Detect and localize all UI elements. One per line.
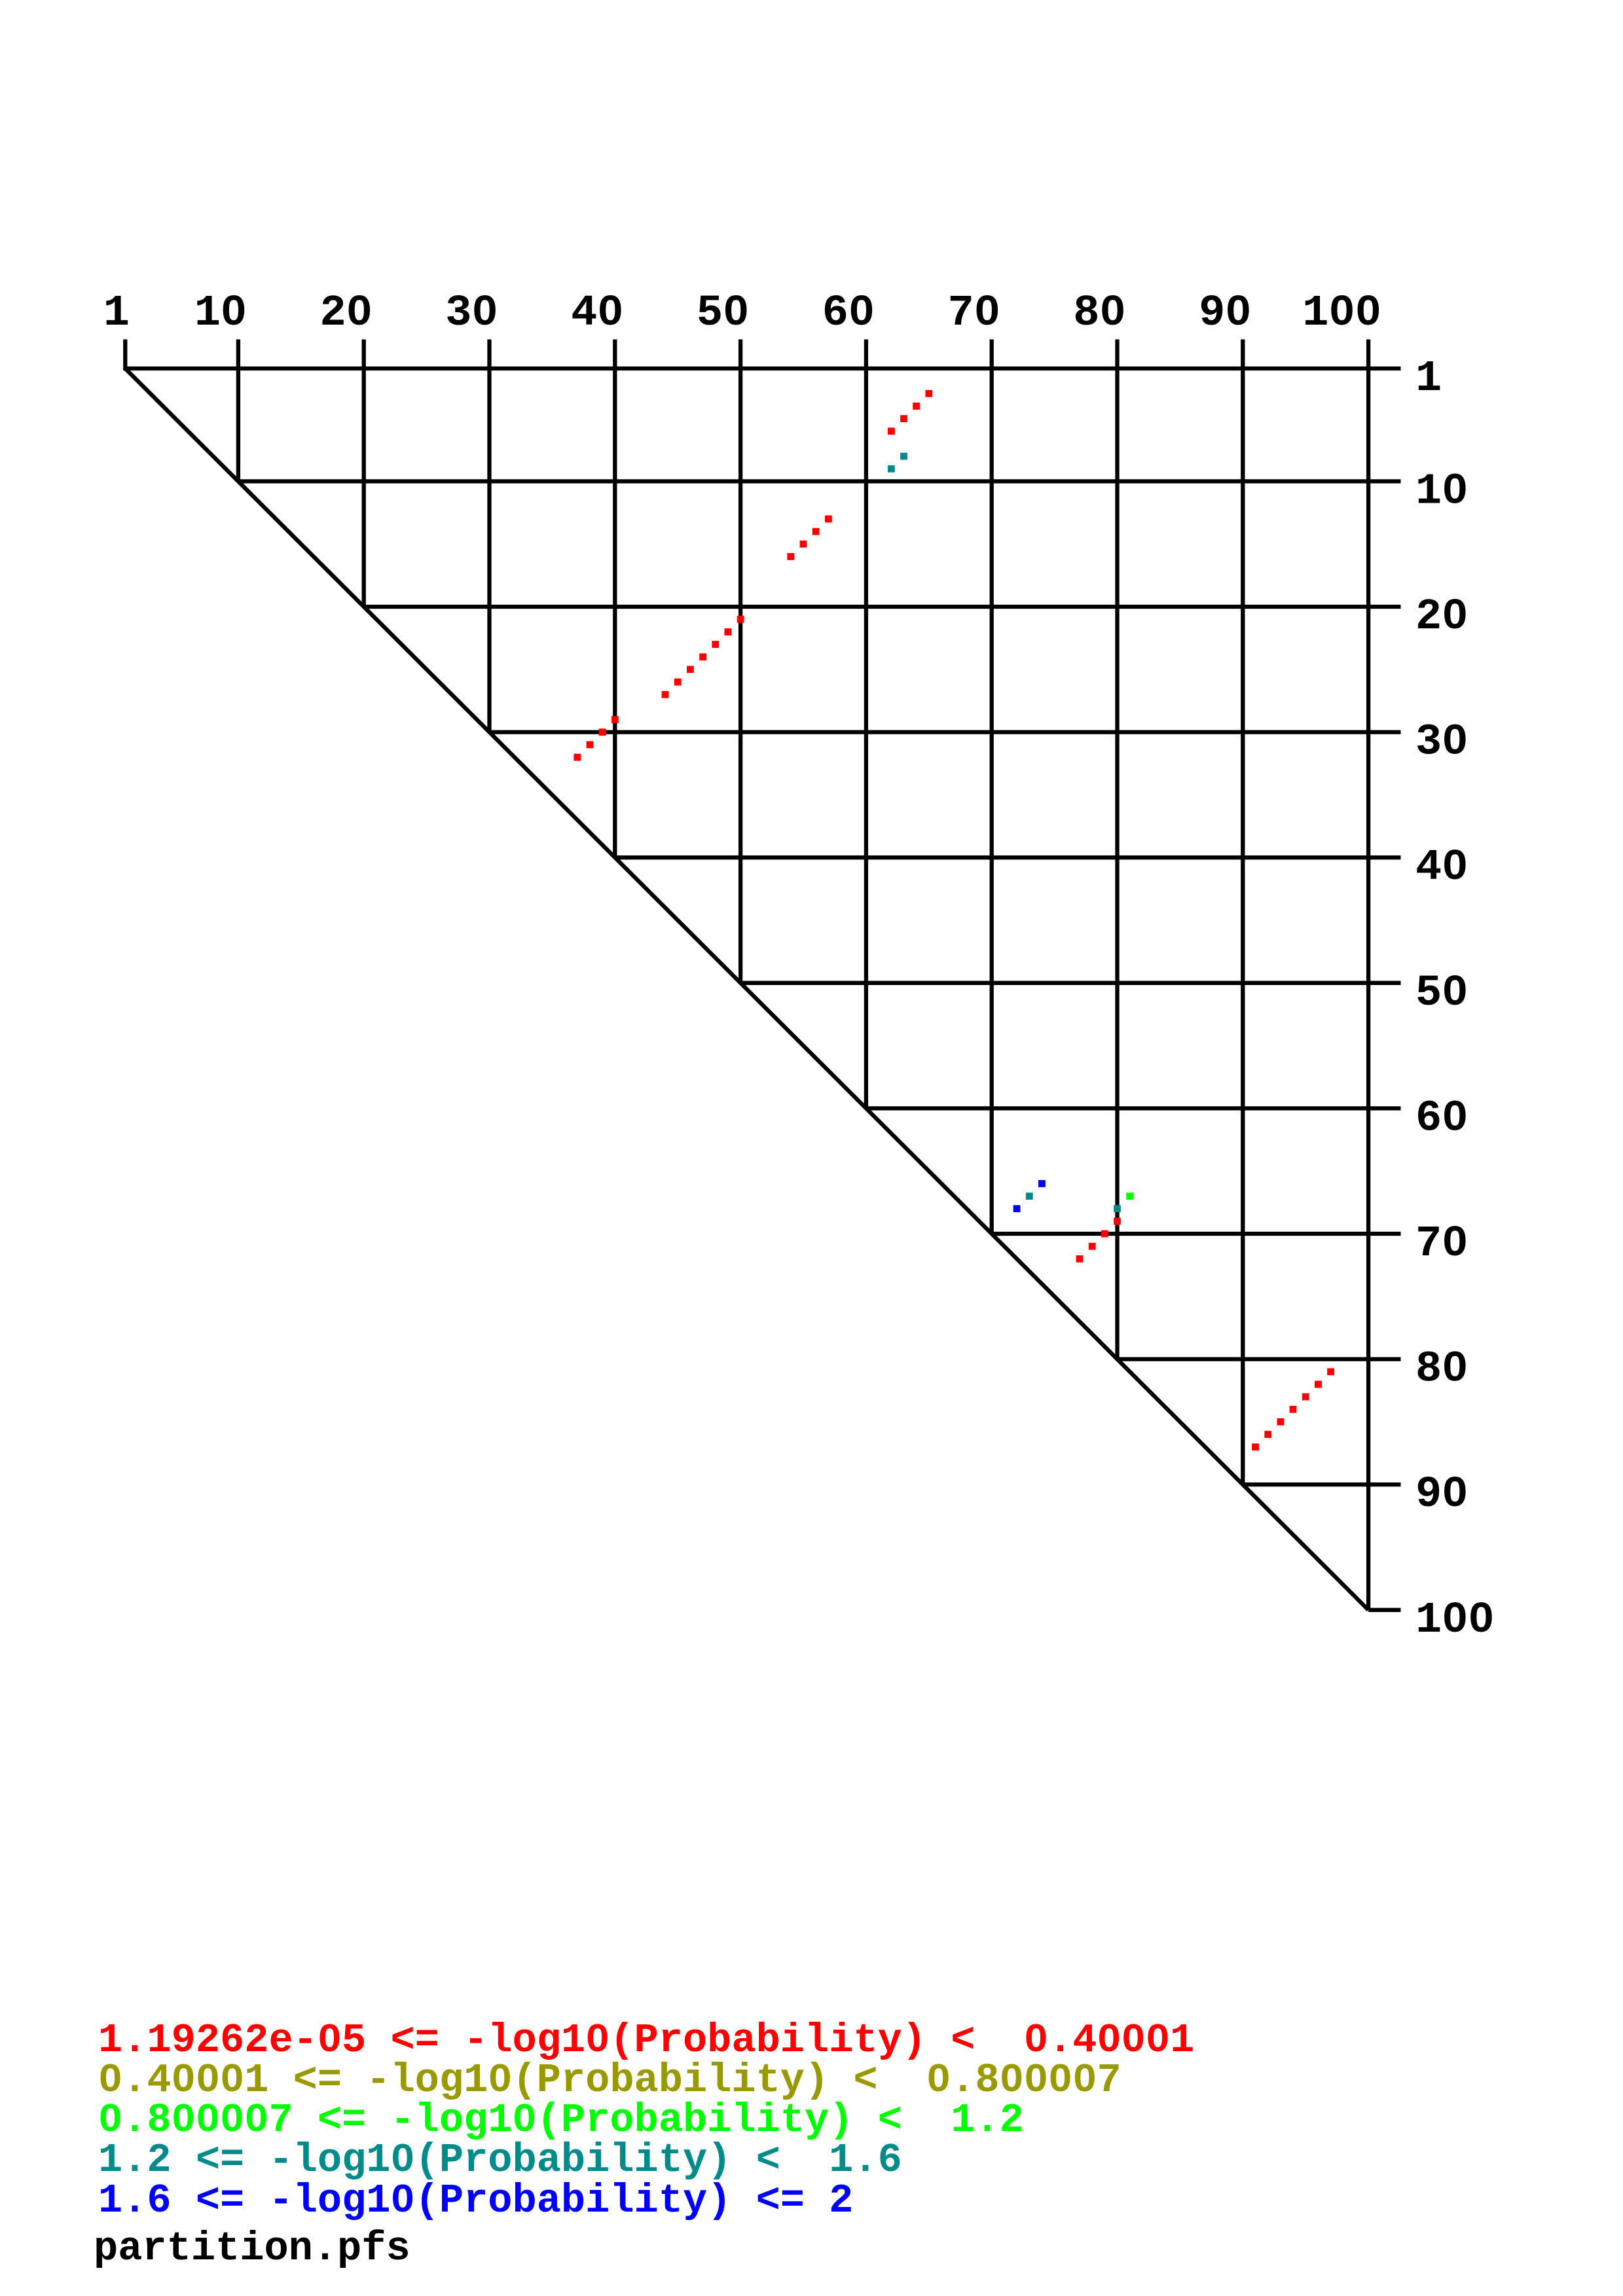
svg-text:partition.pfs: partition.pfs: [94, 2225, 410, 2272]
dark-cyan dot i=62 j=9: [888, 465, 895, 473]
svg-text:40: 40: [571, 289, 623, 338]
red dot i=47 j=24: [699, 653, 706, 660]
red dot i=44 j=27: [662, 691, 669, 698]
vertical gridline column 20: [362, 340, 366, 607]
vertical gridline column 100: [1366, 340, 1370, 1610]
red dot i=46 j=25: [687, 666, 694, 673]
svg-text:80: 80: [1073, 289, 1125, 338]
red dot i=55 j=15: [800, 541, 807, 548]
horizontal gridline row 10: [238, 479, 1401, 483]
red dot i=92 j=86: [1264, 1431, 1271, 1438]
svg-text:1: 1: [103, 289, 130, 338]
tick row 100: [1368, 1608, 1400, 1612]
vertical gridline column 70: [990, 340, 994, 1234]
svg-text:1.6 <= -log10(Probability) <=: 1.6 <= -log10(Probability) <= 2: [98, 2178, 853, 2224]
dark-cyan dot i=63 j=8: [900, 453, 907, 460]
horizontal gridline row 90: [1243, 1482, 1400, 1486]
red dot i=91 j=87: [1252, 1443, 1259, 1450]
red dot i=39 j=30: [599, 728, 606, 736]
red dot i=79 j=70: [1101, 1230, 1108, 1238]
red dot i=50 j=21: [737, 616, 744, 623]
svg-text:20: 20: [319, 289, 372, 338]
svg-text:90: 90: [1415, 1470, 1468, 1520]
red dot i=54 j=16: [787, 553, 794, 560]
svg-text:60: 60: [1415, 1094, 1468, 1143]
red dot i=40 j=29: [611, 716, 619, 723]
vertical gridline column 40: [613, 340, 617, 858]
green dot i=81 j=67: [1126, 1193, 1133, 1200]
red dot i=64 j=4: [913, 403, 920, 410]
diagonal (i=j): [125, 368, 1368, 1610]
horizontal gridline row 50: [740, 981, 1400, 985]
svg-text:1: 1: [1415, 354, 1442, 404]
zero glyph counter patches (solid zeros like Courier): [230, 306, 237, 315]
svg-text:60: 60: [822, 289, 875, 338]
dark-cyan dot i=80 j=68: [1114, 1205, 1121, 1212]
red dot i=94 j=84: [1290, 1406, 1297, 1413]
red dot i=97 j=81: [1327, 1368, 1334, 1375]
horizontal gridline row 70: [992, 1232, 1401, 1236]
blue dot i=72 j=68: [1013, 1205, 1021, 1212]
red dot i=96 j=82: [1315, 1381, 1322, 1388]
horizontal gridline row 30: [490, 730, 1401, 734]
top axis line (row 1): [125, 367, 1400, 370]
red dot i=65 j=3: [925, 390, 932, 397]
svg-text:1.2 <= -log10(Probability) <: 1.2 <= -log10(Probability) < 1.6: [98, 2137, 902, 2183]
blue dot i=74 j=66: [1038, 1180, 1046, 1187]
red dot i=62 j=6: [888, 427, 895, 435]
horizontal gridline row 60: [866, 1106, 1401, 1110]
svg-text:50: 50: [697, 289, 749, 338]
svg-text:30: 30: [445, 289, 498, 338]
red dot i=49 j=22: [725, 628, 732, 636]
red dot i=63 j=5: [900, 415, 907, 422]
vertical gridline column 50: [739, 340, 742, 983]
svg-text:30: 30: [1415, 718, 1468, 768]
red dot i=93 j=85: [1277, 1418, 1285, 1426]
horizontal gridline row 40: [615, 855, 1400, 859]
svg-text:50: 50: [1415, 969, 1468, 1018]
svg-text:80: 80: [1415, 1345, 1468, 1395]
red dot i=77 j=72: [1076, 1255, 1084, 1263]
vertical gridline column 10: [236, 340, 240, 482]
vertical gridline column 30: [487, 340, 491, 732]
red dot i=48 j=23: [712, 641, 719, 648]
vertical gridline column 60: [864, 340, 868, 1109]
svg-text:10: 10: [194, 289, 247, 338]
tick column 1: [123, 340, 127, 371]
horizontal gridline row 20: [364, 605, 1401, 609]
red dot i=37 j=32: [574, 754, 581, 761]
svg-text:10: 10: [1415, 467, 1468, 516]
svg-text:90: 90: [1199, 289, 1251, 338]
dark-cyan dot i=73 j=67: [1026, 1193, 1033, 1200]
vertical gridline column 90: [1241, 340, 1245, 1485]
red dot i=95 j=83: [1302, 1393, 1309, 1401]
red dot i=45 j=26: [674, 679, 682, 686]
red dot i=57 j=13: [825, 516, 832, 523]
red dot i=38 j=31: [587, 741, 594, 748]
svg-text:70: 70: [1415, 1219, 1468, 1269]
red dot i=56 j=14: [812, 528, 820, 535]
vertical gridline column 80: [1115, 340, 1119, 1359]
red dot i=80 j=69: [1114, 1218, 1121, 1225]
horizontal gridline row 80: [1118, 1357, 1401, 1361]
svg-text:40: 40: [1415, 843, 1468, 893]
svg-text:70: 70: [947, 289, 1000, 338]
svg-text:20: 20: [1415, 592, 1468, 642]
red dot i=78 j=71: [1089, 1243, 1096, 1250]
